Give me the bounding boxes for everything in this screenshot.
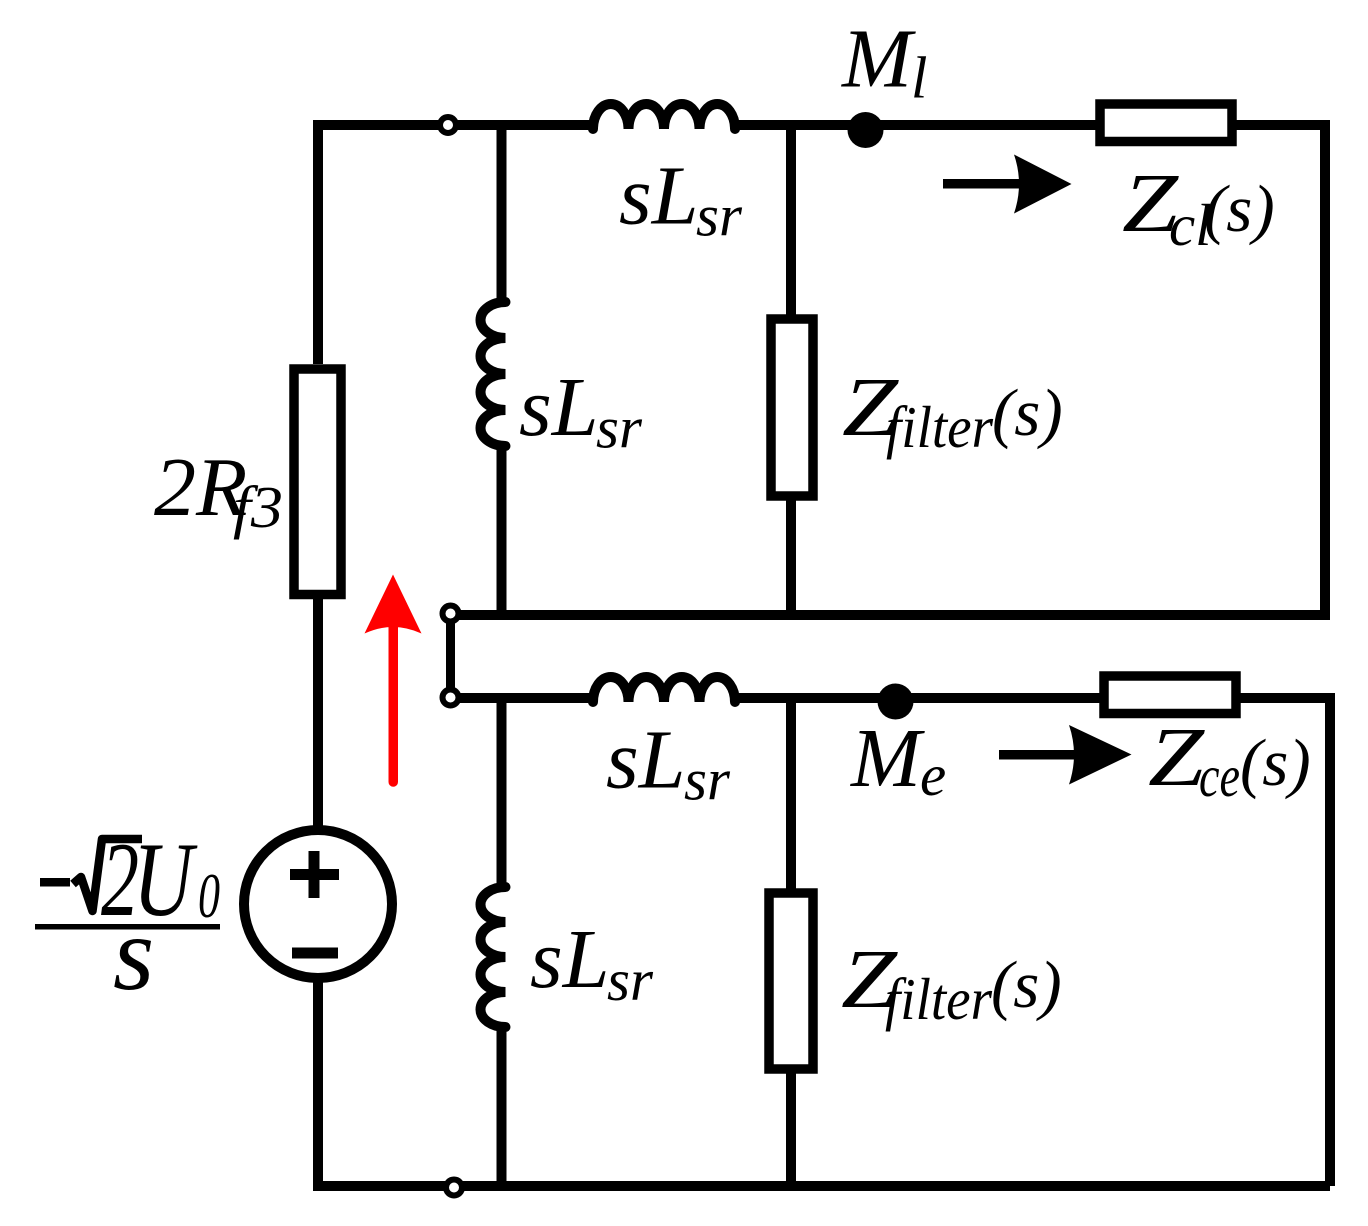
svg-text:filter: filter <box>885 966 993 1032</box>
svg-text:sL: sL <box>619 150 698 243</box>
svg-text:Z: Z <box>1148 711 1206 804</box>
svg-text:sr: sr <box>684 747 731 813</box>
svg-text:e: e <box>920 742 946 808</box>
svg-text:sL: sL <box>519 361 598 454</box>
svg-text:f3: f3 <box>233 474 283 540</box>
svg-text:filter: filter <box>886 394 994 460</box>
svg-text:ce: ce <box>1199 743 1240 809</box>
svg-text:sr: sr <box>696 182 743 248</box>
svg-text:M: M <box>850 712 925 805</box>
svg-text:(s): (s) <box>1240 726 1311 800</box>
svg-text:l: l <box>911 45 927 111</box>
svg-text:sr: sr <box>596 395 643 461</box>
svg-text:(s): (s) <box>992 376 1063 450</box>
svg-text:M: M <box>841 13 916 106</box>
svg-text:sL: sL <box>530 913 609 1006</box>
svg-text:(s): (s) <box>991 948 1062 1022</box>
svg-text:0: 0 <box>198 861 220 931</box>
svg-text:sr: sr <box>607 947 654 1013</box>
svg-text:sL: sL <box>606 714 685 807</box>
svg-text:(s): (s) <box>1204 172 1275 246</box>
svg-text:s: s <box>113 895 154 1012</box>
